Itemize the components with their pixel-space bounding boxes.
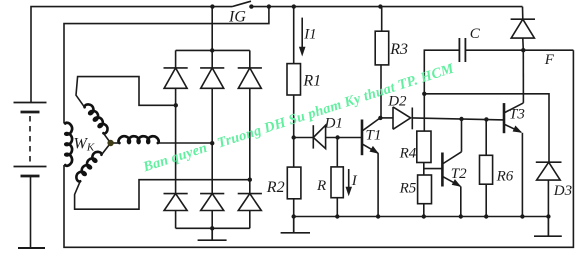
- svg-text:D1: D1: [324, 115, 343, 131]
- node: top bus / rectifier center tap: [210, 4, 214, 8]
- capacitor C plates: [459, 38, 465, 62]
- node: bus / R6: [484, 214, 488, 218]
- transistor T3: [504, 103, 523, 133]
- node: bus right end / ground: [546, 214, 550, 218]
- wire: upper bridge leg at x=249.8: [249, 50, 251, 68]
- wire: bridge bottom bus: [176, 227, 250, 229]
- node: bus / R: [335, 214, 339, 218]
- wire: phase C coil lead to star point: [102, 143, 111, 155]
- resistor R2: [287, 167, 301, 199]
- wire: T2 collector up to base line node: [461, 119, 463, 152]
- wire: capacitor right lead to F node: [465, 49, 523, 51]
- wire: phase B lead to bridge middle leg: [111, 142, 120, 144]
- node: top bus / field feed branch: [267, 4, 271, 8]
- svg-text:R: R: [316, 178, 326, 194]
- node: bus / R2 ground: [292, 214, 296, 218]
- node: base line / T2 collector: [459, 117, 463, 121]
- battery cell 1 long plate: [14, 102, 47, 104]
- node: bus / T3 emitter: [520, 214, 524, 218]
- wire: capacitor left lead and drop to R4 column: [424, 50, 459, 131]
- wire: T3 collector up to F node: [522, 50, 524, 103]
- wire: node to D2 anode: [380, 117, 393, 119]
- node: divider R1/R2/D1: [292, 135, 296, 139]
- wire: R3 lower to T1 collector node: [380, 65, 382, 118]
- wire: bridge leg 249.8 middle section: [249, 88, 251, 193]
- node: phase C to bridge right leg: [248, 178, 252, 182]
- wire: bridge leg 175.6 middle section: [175, 88, 177, 193]
- resistor R1: [287, 64, 301, 95]
- svg-text:I1: I1: [303, 27, 317, 43]
- wire: lower bridge leg at x=212.2: [211, 211, 213, 229]
- node: F (field terminal): [521, 48, 525, 52]
- wire: top supply bus from battery + to IG switch: [31, 7, 232, 103]
- node: stator star point (overdraw): [107, 140, 113, 146]
- svg-text:T1: T1: [366, 128, 382, 144]
- stator phase coil (horizontal): [119, 136, 159, 143]
- node: F sense / C branch: [422, 92, 426, 96]
- diode D2 (pointing right): [393, 107, 412, 129]
- battery cell 1 short plate: [21, 111, 40, 114]
- battery cell 2 long plate: [14, 166, 47, 168]
- node: phase B to bridge middle leg: [210, 141, 214, 145]
- wire: battery negative lead: [30, 176, 32, 248]
- node: phase A to bridge left leg: [174, 103, 178, 107]
- svg-text:I: I: [351, 173, 358, 189]
- stator phase coil (upper-left): [84, 102, 110, 134]
- ground: regulator output common: [534, 217, 562, 237]
- node: D1 / R / T1 base: [335, 135, 339, 139]
- wire: R6 upper: [485, 119, 487, 155]
- svg-text:R5: R5: [399, 180, 417, 196]
- wire: phase C lead to bridge right leg: [75, 180, 250, 210]
- wire: lower bridge leg at x=249.8: [249, 211, 251, 229]
- ground: battery terminal bar: [18, 247, 45, 249]
- wire: F to right bus: [523, 49, 573, 51]
- battery cell 2 short plate: [21, 175, 40, 178]
- wire: R2 lower to component ground bus: [293, 199, 295, 217]
- field winding coil (on left bus): [65, 123, 72, 166]
- svg-text:R3: R3: [389, 41, 408, 58]
- wire: R6 lower to bus: [485, 184, 487, 216]
- node: bridge top bus center: [210, 48, 214, 52]
- current arrow I: [348, 169, 350, 189]
- rectifier diode lower-middle: [200, 194, 224, 211]
- node: bus / T1 emitter: [376, 214, 380, 218]
- wire: upper bridge leg at x=212.2: [211, 50, 213, 68]
- wire: node down to R: [336, 138, 338, 167]
- svg-text:T3: T3: [509, 106, 525, 122]
- wire: left bus lower + outer bottom + right bus: [64, 50, 573, 247]
- svg-text:R1: R1: [302, 72, 321, 89]
- wire: bridge top bus: [176, 49, 250, 51]
- svg-text:T2: T2: [451, 166, 467, 182]
- wire: F node sense run to D3: [424, 94, 549, 162]
- svg-text:R4: R4: [399, 145, 417, 161]
- node: top bus / R1 branch: [292, 4, 296, 8]
- rectifier diode upper-middle: [200, 68, 224, 88]
- wire: D3 anode to bus end: [547, 180, 549, 216]
- resistor R: [331, 167, 343, 198]
- wire: R lower to bus: [336, 198, 338, 217]
- wire: field circuit loop (IG node down-left, left bus): [64, 7, 269, 124]
- wire: phase upper-left lead: [76, 77, 176, 108]
- wire: bridge center-top lead to top bus: [211, 7, 213, 51]
- wire: top bus from IG switch to top-right diode: [251, 6, 522, 8]
- wire: R1 branch upper: [293, 7, 295, 64]
- node: stator star point: [108, 140, 113, 145]
- svg-text:F: F: [544, 52, 555, 68]
- wire: D1 anode to T1 base: [326, 137, 362, 139]
- resistor R6: [480, 155, 493, 184]
- switch IG blade: [232, 1, 251, 6]
- wire: component ground bus: [294, 216, 549, 218]
- node: base line / R6: [484, 117, 488, 121]
- wire: phase A coil lead to star point: [103, 133, 110, 143]
- node: bus / R5: [422, 214, 426, 218]
- wire: upper bridge leg at x=175.6: [175, 50, 177, 68]
- node: R3 / T1 collector / D2 anode: [378, 116, 382, 120]
- wire: D2 cathode along T3 base line: [412, 118, 504, 120]
- rectifier diode upper-left: [164, 68, 188, 88]
- current arrow I1: [301, 18, 303, 49]
- svg-text:C: C: [470, 26, 481, 42]
- ground: R2 / regulator common: [281, 217, 310, 233]
- rectifier diode lower-right: [238, 194, 262, 211]
- transistor T2: [442, 152, 461, 187]
- node: top bus / R3 branch: [378, 4, 382, 8]
- transistor T1: [362, 118, 380, 155]
- switch IG right contact: [249, 4, 253, 8]
- diode D3 (flyback, cathode up): [536, 162, 562, 180]
- wire: top-right diode feed from top bus: [522, 7, 524, 20]
- svg-text:R6: R6: [496, 169, 514, 185]
- svg-text:WK: WK: [74, 136, 95, 154]
- wire: divider node to D1 cathode: [294, 137, 314, 139]
- wire: R4 to R5 with T2 base tap: [424, 163, 442, 176]
- wire: T2 emitter to bus: [460, 186, 462, 216]
- diode D1 (zener sense, pointing left): [313, 125, 325, 148]
- node: bus / T2 emitter: [459, 214, 463, 218]
- wire: T1 emitter to bus: [377, 153, 379, 216]
- svg-text:IG: IG: [228, 8, 246, 25]
- node: bridge bottom bus center: [210, 226, 214, 230]
- battery dashed link: [29, 116, 31, 163]
- wire: R1 lower to divider node: [293, 95, 295, 138]
- svg-text:D3: D3: [553, 183, 572, 199]
- svg-text:R2: R2: [266, 179, 285, 196]
- wire: T3 emitter to bus: [521, 133, 523, 217]
- resistor R3: [375, 31, 389, 65]
- rectifier diode upper-right: [238, 68, 262, 88]
- rectifier diode lower-left: [164, 194, 188, 211]
- resistor R4: [417, 131, 431, 162]
- wire: diode to F node: [522, 38, 525, 50]
- resistor R5: [418, 175, 432, 204]
- diode (output, top-right): [511, 19, 535, 38]
- wire: bridge leg 212.2 middle section: [211, 88, 213, 193]
- wire: lower bridge leg at x=175.6: [175, 211, 177, 229]
- ground: bridge negative: [198, 228, 227, 240]
- stator phase coil (lower-left): [74, 150, 102, 183]
- wire: R5 lower to bus: [423, 204, 425, 217]
- wire: R3 upper: [381, 7, 383, 32]
- wire: divider node to R2: [293, 138, 295, 168]
